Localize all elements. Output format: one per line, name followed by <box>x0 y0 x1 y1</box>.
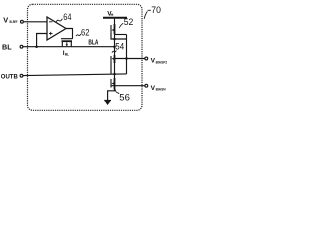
svg-text:BIASP2: BIASP2 <box>156 60 168 64</box>
svg-text:56: 56 <box>119 93 130 104</box>
svg-text:H: H <box>111 12 114 17</box>
svg-text:V: V <box>3 15 8 24</box>
svg-text:BL: BL <box>65 52 70 57</box>
svg-text:64: 64 <box>63 12 71 22</box>
svg-text:BLA: BLA <box>88 37 98 46</box>
svg-text:52: 52 <box>124 17 134 27</box>
svg-text:54: 54 <box>115 41 124 51</box>
svg-text:OUTB: OUTB <box>1 73 18 80</box>
svg-text:BL: BL <box>2 43 12 52</box>
svg-text:62: 62 <box>81 28 90 38</box>
svg-text:BLREF: BLREF <box>10 20 18 24</box>
svg-text:BIASN: BIASN <box>156 88 166 92</box>
svg-text:70: 70 <box>151 5 161 15</box>
